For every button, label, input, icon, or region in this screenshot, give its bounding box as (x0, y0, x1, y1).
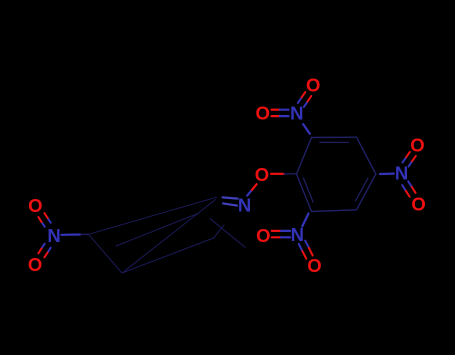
svg-text:O: O (255, 164, 269, 185)
benzene ring right lower edge (214, 225, 225, 238)
aromatic inner line C6-C1 (304, 178, 314, 202)
svg-text:O: O (411, 194, 425, 215)
double bond CH=N (oxime) (223, 197, 238, 205)
aromatic inner line C4-C5 (356, 178, 368, 201)
svg-text:O: O (256, 225, 270, 246)
double bond N2=O4 (up-right) (298, 92, 311, 107)
svg-text:N: N (290, 102, 303, 123)
wire N1 to ring C4' (62, 233, 89, 236)
double bond N3=O5 (up) (403, 152, 416, 167)
wire N(oxime) to O(ether) (247, 184, 256, 195)
picryl ring edge C4-C5 (357, 174, 376, 210)
svg-text:O: O (306, 74, 320, 95)
benzene ring (4-nitrophenyl) top edge chain (89, 197, 217, 234)
wire O(ether) to picryl C1 (271, 173, 297, 175)
svg-text:N: N (238, 195, 251, 216)
svg-text:O: O (307, 255, 321, 276)
svg-text:O: O (410, 135, 424, 156)
wire C4 to N3 (right nitro) (380, 173, 394, 176)
benzene ring left edge (89, 234, 123, 273)
svg-text:O: O (28, 195, 42, 216)
aromatic inner line 1 (116, 213, 199, 246)
wire C2 to N2 (top nitro) (303, 124, 310, 134)
double bond N3=O6 (down) (402, 181, 415, 196)
svg-text:N: N (47, 225, 60, 246)
benzene ring long diagonal edge (122, 200, 216, 274)
picryl ring edge C5-C6 (312, 210, 357, 212)
double bond N4=O7 (horizontal) (272, 231, 290, 237)
double bond N2=O3 (horizontal) (272, 110, 289, 116)
svg-text:O: O (28, 254, 42, 275)
picryl ring edge C3-C4 (357, 137, 376, 174)
benzene ring bottom edge chain (122, 238, 214, 273)
double bond N1=O1 (38, 213, 50, 227)
picryl ring edge C6-C1 (297, 174, 312, 212)
picryl ring edge C2-C3 (312, 136, 357, 138)
svg-text:O: O (256, 103, 270, 124)
svg-text:N: N (291, 224, 304, 245)
double bond N4=O8 (down-right) (299, 241, 313, 259)
aromatic inner line C2-C3 (320, 141, 349, 143)
picryl ring edge C1-C2 (297, 138, 312, 175)
svg-text:N: N (395, 163, 408, 184)
wire C6 to N4 (bottom nitro) (302, 214, 308, 227)
double bond N1=O2 (38, 244, 50, 258)
aromatic inner line 2 (210, 219, 245, 248)
